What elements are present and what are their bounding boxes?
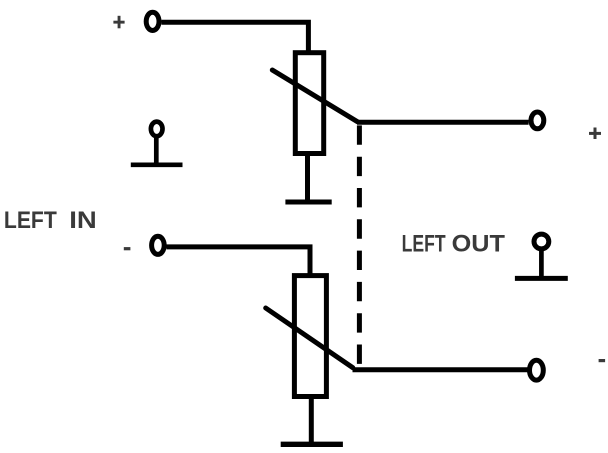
- svg-text:LEFT: LEFT: [402, 231, 446, 258]
- svg-text:IN: IN: [69, 207, 97, 234]
- svg-text:LEFT: LEFT: [4, 207, 57, 234]
- svg-text:OUT: OUT: [452, 231, 506, 258]
